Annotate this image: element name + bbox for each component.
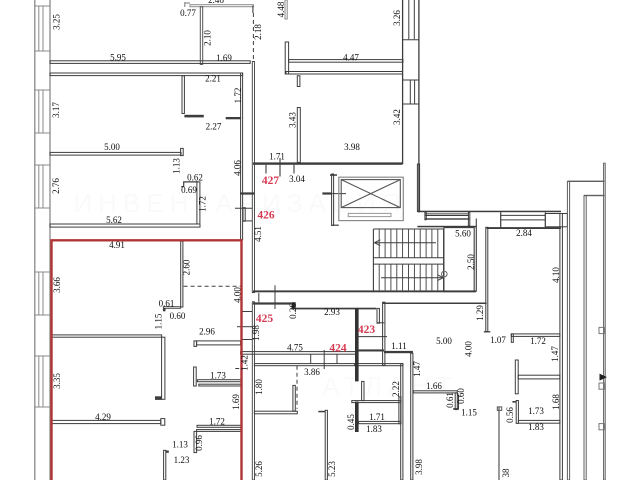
svg-text:423: 423 <box>358 324 376 336</box>
svg-text:0.56: 0.56 <box>505 407 515 423</box>
svg-text:2.60: 2.60 <box>182 259 192 275</box>
svg-text:5.60: 5.60 <box>455 229 471 239</box>
svg-text:АТЛАНТ: АТЛАНТ <box>322 371 458 401</box>
svg-text:425: 425 <box>256 313 274 325</box>
svg-text:3.66: 3.66 <box>52 277 62 293</box>
svg-text:4.00: 4.00 <box>464 341 474 357</box>
svg-text:1.83: 1.83 <box>528 422 544 432</box>
svg-text:1.47: 1.47 <box>550 346 560 362</box>
svg-text:1.71: 1.71 <box>269 152 285 162</box>
svg-text:0.61: 0.61 <box>159 299 175 309</box>
svg-text:2.27: 2.27 <box>206 122 222 132</box>
svg-text:4.75: 4.75 <box>287 343 303 353</box>
svg-text:2.21: 2.21 <box>205 74 221 84</box>
svg-text:1.80: 1.80 <box>254 379 264 395</box>
svg-text:1.98: 1.98 <box>251 325 261 341</box>
svg-text:0.60: 0.60 <box>170 311 186 321</box>
svg-text:424: 424 <box>329 343 347 355</box>
svg-text:1.11: 1.11 <box>391 341 406 351</box>
svg-text:1.68: 1.68 <box>551 394 561 410</box>
svg-text:1.13: 1.13 <box>172 440 188 450</box>
svg-text:5.00: 5.00 <box>104 142 120 152</box>
svg-text:3.42: 3.42 <box>392 109 402 125</box>
svg-text:3.43: 3.43 <box>288 112 298 128</box>
svg-text:3.98: 3.98 <box>414 459 424 475</box>
svg-text:3.86: 3.86 <box>304 367 320 377</box>
svg-text:5.26: 5.26 <box>254 461 264 477</box>
svg-text:0.26: 0.26 <box>288 303 298 319</box>
svg-text:2.93: 2.93 <box>324 307 340 317</box>
svg-text:4.48: 4.48 <box>276 1 286 17</box>
svg-text:427: 427 <box>262 175 280 187</box>
svg-text:1.71: 1.71 <box>369 412 385 422</box>
svg-text:2.96: 2.96 <box>199 327 215 337</box>
svg-text:1.83: 1.83 <box>366 424 382 434</box>
svg-text:1.07: 1.07 <box>490 335 506 345</box>
svg-text:1.13: 1.13 <box>172 158 182 174</box>
svg-text:3.04: 3.04 <box>289 174 305 184</box>
svg-text:5.23: 5.23 <box>327 461 337 477</box>
svg-text:1.69: 1.69 <box>216 53 232 63</box>
svg-text:3.26: 3.26 <box>392 10 402 26</box>
svg-text:2.10: 2.10 <box>203 30 213 46</box>
svg-text:2.84: 2.84 <box>516 228 532 238</box>
svg-text:1.72: 1.72 <box>209 417 225 427</box>
svg-text:0.45: 0.45 <box>346 414 356 430</box>
svg-text:5.95: 5.95 <box>110 53 126 63</box>
svg-text:2.76: 2.76 <box>51 178 61 194</box>
svg-text:ИНВЕНТАРИЗАЦИЯ: ИНВЕНТАРИЗАЦИЯ <box>73 188 406 218</box>
svg-text:4.10: 4.10 <box>551 267 561 283</box>
svg-text:4.00: 4.00 <box>233 287 243 303</box>
svg-text:0.62: 0.62 <box>187 173 203 183</box>
svg-text:4.47: 4.47 <box>343 53 359 63</box>
svg-text:2.50: 2.50 <box>466 254 476 270</box>
svg-text:1.23: 1.23 <box>174 455 190 465</box>
svg-text:1.15: 1.15 <box>154 313 164 329</box>
svg-text:0.96: 0.96 <box>194 435 204 451</box>
svg-text:4.06: 4.06 <box>233 160 243 176</box>
svg-text:1.42: 1.42 <box>240 355 250 371</box>
svg-text:3.35: 3.35 <box>52 373 62 389</box>
svg-text:2.46: 2.46 <box>208 0 224 5</box>
svg-text:2.18: 2.18 <box>253 24 263 40</box>
svg-text:5.00: 5.00 <box>436 336 452 346</box>
svg-text:1.72: 1.72 <box>530 336 546 346</box>
svg-text:1.73: 1.73 <box>528 406 544 416</box>
svg-text:1.29: 1.29 <box>475 305 485 321</box>
svg-text:4.29: 4.29 <box>95 412 111 422</box>
svg-text:4.91: 4.91 <box>109 240 125 250</box>
svg-text:3.98: 3.98 <box>344 142 360 152</box>
svg-text:1.72: 1.72 <box>233 88 243 104</box>
svg-text:1.15: 1.15 <box>461 408 477 418</box>
svg-text:1.69: 1.69 <box>231 394 241 410</box>
svg-text:0.77: 0.77 <box>180 8 196 18</box>
svg-text:38: 38 <box>501 468 511 478</box>
svg-text:4.51: 4.51 <box>253 226 263 242</box>
svg-text:1.73: 1.73 <box>210 371 226 381</box>
svg-text:3.25: 3.25 <box>52 14 62 30</box>
svg-text:3.17: 3.17 <box>51 102 61 118</box>
